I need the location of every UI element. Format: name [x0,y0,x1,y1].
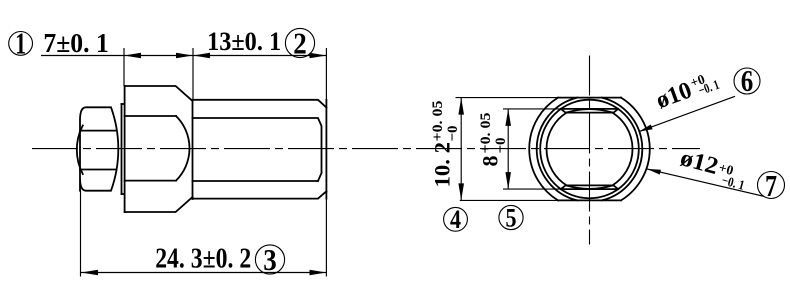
svg-text:1: 1 [15,26,26,61]
svg-text:3: 3 [263,242,277,277]
svg-text:6: 6 [741,63,754,98]
svg-text:−0: −0 [493,137,509,153]
svg-text:+0. 05: +0. 05 [430,101,446,142]
svg-text:−0: −0 [445,125,461,141]
svg-text:2: 2 [293,25,307,60]
svg-text:10. 2: 10. 2 [429,142,454,188]
svg-text:5: 5 [505,203,516,232]
svg-text:8: 8 [477,156,502,167]
svg-text:7±0. 1: 7±0. 1 [43,28,108,58]
svg-text:7: 7 [765,168,777,203]
svg-text:24. 3±0. 2: 24. 3±0. 2 [155,243,251,274]
svg-text:4: 4 [450,205,461,234]
svg-text:+0. 05: +0. 05 [478,113,494,154]
svg-text:13±0. 1: 13±0. 1 [207,27,281,56]
